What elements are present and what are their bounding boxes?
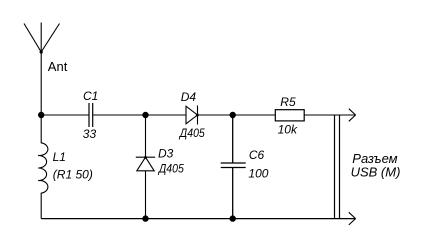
arrow head top xyxy=(349,109,356,122)
svg-text:R5: R5 xyxy=(280,95,296,109)
wire node A to C1 xyxy=(41,114,89,116)
inductor L1 xyxy=(38,115,48,219)
node B junction dot xyxy=(142,112,148,118)
svg-text:33: 33 xyxy=(83,127,97,141)
junction dot C6 bottom xyxy=(230,215,236,221)
capacitor C6 xyxy=(221,115,246,219)
wire node C to R5 xyxy=(233,114,276,116)
wire C1 to node B xyxy=(93,114,146,116)
node C junction dot xyxy=(230,112,236,118)
svg-text:D3: D3 xyxy=(158,146,174,160)
diode D4 xyxy=(186,106,199,125)
svg-text:Разъем: Разъем xyxy=(352,151,397,166)
node A junction dot xyxy=(38,112,44,118)
antenna apex dot xyxy=(40,50,43,53)
capacitor C1 xyxy=(89,103,93,127)
svg-text:10k: 10k xyxy=(278,123,298,137)
wire antenna to node A xyxy=(40,52,42,115)
resistor R5 xyxy=(275,110,304,121)
svg-text:(R1 50): (R1 50) xyxy=(53,168,93,182)
antenna xyxy=(24,23,60,53)
arrow head bottom xyxy=(349,212,356,225)
svg-text:C1: C1 xyxy=(83,89,98,103)
svg-text:D4: D4 xyxy=(181,90,197,104)
junction dot D3 bottom xyxy=(142,215,148,221)
diode D3 xyxy=(136,115,155,219)
svg-text:Ant: Ant xyxy=(48,59,68,74)
svg-text:Д405: Д405 xyxy=(178,126,205,140)
wire node B to D4 xyxy=(146,114,187,116)
svg-text:100: 100 xyxy=(248,166,268,180)
svg-text:L1: L1 xyxy=(53,150,66,164)
bottom rail wire xyxy=(41,218,355,220)
svg-text:Д405: Д405 xyxy=(157,162,184,176)
wire D4 to node C xyxy=(198,114,233,116)
wire R5 to USB arrow (top) xyxy=(304,114,355,116)
svg-text:C6: C6 xyxy=(249,148,265,162)
USB connector plates xyxy=(335,115,340,219)
svg-text:USB (M): USB (M) xyxy=(351,165,401,180)
